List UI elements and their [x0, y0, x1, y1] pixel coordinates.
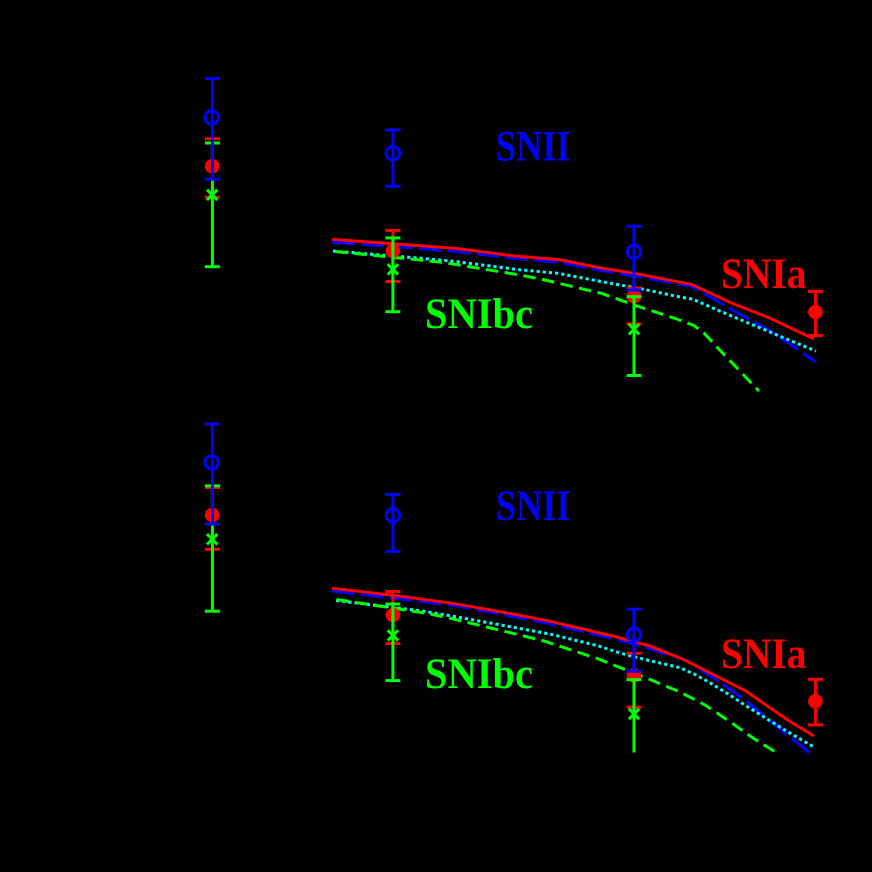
svg-text:SNIbc: SNIbc [425, 650, 533, 698]
svg-text:SNIa: SNIa [721, 250, 807, 298]
svg-text:SNIa: SNIa [721, 630, 807, 678]
svg-text:SNIbc: SNIbc [425, 290, 533, 338]
svg-text:SNII: SNII [496, 482, 571, 530]
svg-text:SNII: SNII [496, 123, 571, 171]
